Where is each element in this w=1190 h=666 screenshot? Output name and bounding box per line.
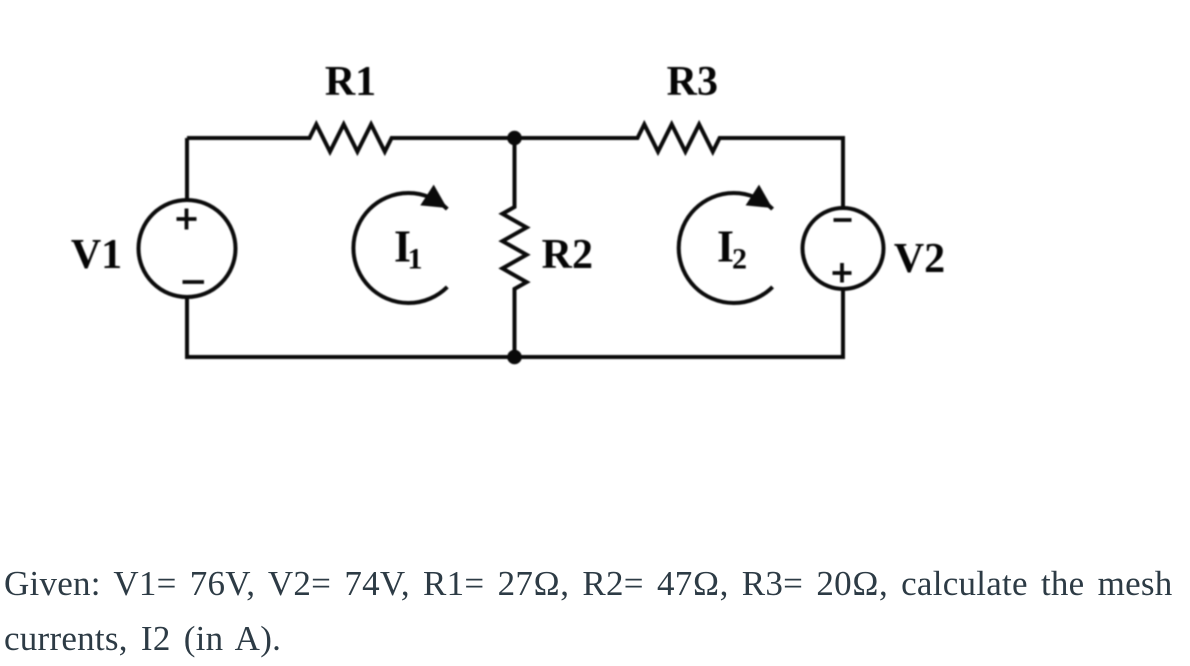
svg-text:2: 2 (732, 243, 747, 276)
svg-text:R3: R3 (667, 59, 718, 105)
svg-text:R2: R2 (542, 232, 593, 278)
svg-text:V1: V1 (71, 232, 122, 278)
svg-text:V2: V2 (894, 236, 945, 282)
svg-text:1: 1 (408, 243, 423, 276)
svg-text:R1: R1 (325, 59, 376, 105)
